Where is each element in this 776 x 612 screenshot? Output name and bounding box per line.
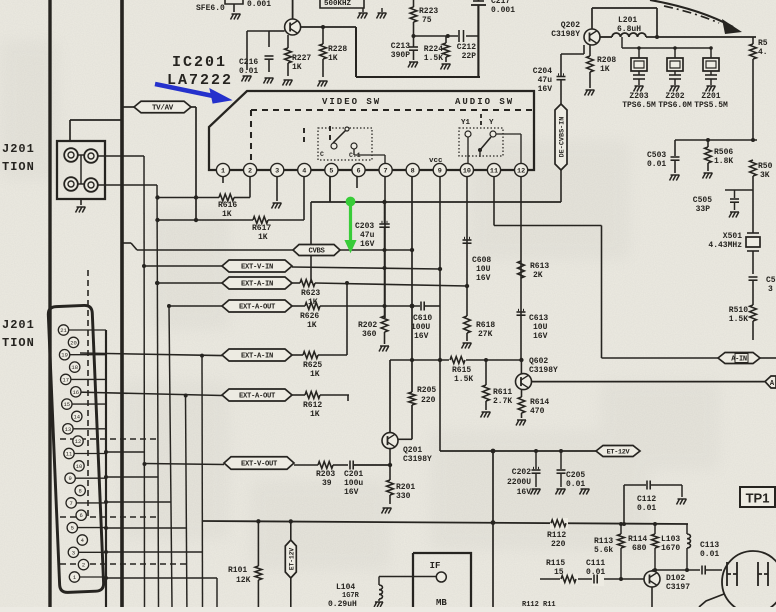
svg-text:0.001: 0.001	[491, 6, 515, 15]
resistor R508 right edge	[752, 37, 754, 44]
wire: y=570 net	[652, 569, 700, 571]
svg-text:R224: R224	[424, 45, 443, 54]
svg-text:R115: R115	[546, 559, 565, 568]
svg-text:C212: C212	[457, 43, 476, 52]
resistor R509 3K	[750, 160, 757, 176]
wire: Q201 base up	[389, 360, 391, 433]
pin 10	[460, 163, 473, 176]
crystal X501	[752, 176, 754, 233]
wire: ET-12V feed y=451	[440, 450, 596, 452]
svg-text:Y: Y	[489, 119, 494, 127]
svg-text:IF: IF	[430, 561, 441, 571]
J201 pin 6	[76, 510, 86, 520]
svg-text:EXT-A-IN: EXT-A-IN	[241, 281, 273, 289]
pin 3	[271, 163, 284, 176]
ground under C503	[671, 174, 680, 176]
svg-text:13: 13	[65, 426, 72, 433]
svg-text:21: 21	[60, 327, 67, 334]
wire: pin3 drop to ground	[276, 177, 278, 201]
svg-text:12K: 12K	[236, 576, 251, 585]
svg-text:390P: 390P	[391, 51, 410, 60]
capacitor series on y=36	[458, 30, 466, 42]
resistor R617	[253, 217, 268, 224]
resistor R613	[518, 261, 525, 278]
transistor D102	[644, 571, 660, 587]
svg-text:R616: R616	[218, 201, 237, 210]
svg-text:C204: C204	[533, 67, 552, 76]
svg-text:R506: R506	[714, 148, 733, 157]
switch S1 dotted box	[318, 128, 372, 160]
ground under R202	[380, 345, 389, 347]
transistor Q202	[584, 29, 600, 45]
component box above SFE6.0	[225, 0, 243, 4]
switch S1 contacts	[331, 143, 337, 149]
wire: bus y=37 continue	[646, 36, 756, 38]
resistor R626	[292, 305, 305, 307]
ground under RCA block	[77, 206, 86, 208]
resistor R223	[413, 0, 415, 7]
wire: Q205 base left	[269, 30, 285, 32]
resistor R506	[707, 140, 709, 147]
svg-text:VIDEO SW: VIDEO SW	[322, 97, 381, 107]
capacitor C610	[420, 302, 422, 311]
J201 pin 15	[62, 399, 72, 409]
resistor R205	[411, 360, 413, 392]
svg-text:18: 18	[71, 364, 78, 371]
svg-text:10U: 10U	[476, 265, 491, 274]
wire: pin11 drop and route to A-IN	[493, 177, 495, 226]
net label A-IN pill	[718, 353, 760, 364]
RCA jack at 91,185	[84, 178, 98, 192]
svg-text:R615: R615	[452, 366, 471, 375]
wire: RCA ground stub	[80, 199, 82, 205]
ground third	[581, 488, 590, 490]
ground under R208	[586, 89, 595, 91]
svg-text:C: C	[320, 151, 324, 158]
svg-text:4.43MHz: 4.43MHz	[708, 241, 742, 250]
svg-text:100U: 100U	[411, 323, 430, 332]
wire: R617 net y=220	[158, 219, 254, 221]
wire: CVBS/DE net y=202	[330, 201, 561, 203]
wire: into IF module	[379, 576, 437, 578]
svg-text:C112: C112	[637, 495, 656, 504]
capacitor C205	[560, 451, 562, 469]
svg-text:C503: C503	[647, 151, 666, 160]
ground under R224	[442, 63, 451, 65]
J201 pin 11	[64, 448, 74, 458]
net label EXT-A-OUT pill	[169, 305, 222, 307]
wire: vertical x186	[186, 396, 187, 608]
capacitor C204	[557, 76, 566, 78]
wire: bus y=140	[675, 139, 757, 141]
ground under R614	[517, 419, 526, 421]
wire: pin10 drop	[466, 177, 468, 316]
svg-text:CVBS: CVBS	[308, 248, 325, 256]
capacitor C111	[592, 572, 604, 586]
svg-text:L201: L201	[618, 16, 637, 25]
svg-text:Q602: Q602	[529, 357, 548, 366]
IC U201 body outline	[209, 91, 534, 170]
svg-text:1K: 1K	[292, 63, 302, 72]
svg-text:R617: R617	[252, 224, 271, 233]
svg-text:Y1: Y1	[461, 119, 471, 127]
net label EXT-A-IN pill	[157, 282, 222, 284]
capacitor C613	[517, 311, 526, 313]
svg-text:16V: 16V	[517, 488, 532, 497]
wire: C505 tap	[725, 189, 753, 191]
svg-text:47u: 47u	[538, 76, 553, 85]
svg-text:C505: C505	[693, 196, 712, 205]
svg-text:EXT-V-IN: EXT-V-IN	[241, 264, 273, 272]
net label EXT-A-IN 2 pill	[80, 353, 222, 356]
svg-text:TP1: TP1	[746, 491, 770, 506]
svg-text:15: 15	[63, 401, 70, 408]
svg-text:R50: R50	[758, 162, 773, 171]
wire: Q201 emitter node	[389, 449, 391, 480]
resistor R623	[292, 282, 300, 284]
svg-text:3: 3	[275, 167, 279, 175]
capacitor C201	[349, 461, 351, 470]
resistor R614	[521, 390, 523, 397]
svg-text:TV/AV: TV/AV	[152, 105, 174, 113]
ground under C505	[730, 211, 739, 213]
svg-text:R613: R613	[530, 262, 549, 271]
svg-text:R201: R201	[396, 483, 415, 492]
svg-text:C608: C608	[472, 256, 491, 265]
J201 pin 2	[78, 559, 88, 569]
svg-text:2: 2	[82, 562, 85, 569]
svg-text:C613: C613	[529, 314, 548, 323]
svg-text:0.01: 0.01	[637, 504, 656, 513]
svg-text:7: 7	[384, 167, 388, 175]
svg-text:R208: R208	[597, 56, 616, 65]
svg-text:Z202: Z202	[665, 92, 684, 101]
svg-text:10: 10	[463, 167, 471, 175]
svg-text:R223: R223	[419, 7, 438, 16]
svg-text:X501: X501	[723, 232, 742, 241]
tuner shield arc arrowhead	[722, 19, 742, 34]
ground under C216 left	[243, 75, 252, 77]
svg-text:9: 9	[68, 475, 71, 482]
net label ET-12V vertical pill	[285, 540, 296, 578]
svg-text:5: 5	[329, 167, 333, 175]
svg-text:0.01: 0.01	[586, 568, 605, 577]
switch S2 dotted box audio	[459, 128, 503, 156]
wire: pin9 drop	[439, 177, 441, 451]
J201 pin 17	[60, 374, 70, 384]
wire: pin8 drop	[411, 177, 413, 360]
wire: DE-CVBS-IN bottom to y202	[560, 170, 562, 202]
ground under pin3	[273, 202, 282, 204]
svg-text:470: 470	[530, 407, 545, 416]
svg-text:AUDIO SW: AUDIO SW	[455, 97, 514, 107]
svg-text:17: 17	[62, 376, 69, 383]
wire: vertical x158	[157, 185, 159, 607]
ground under C202	[532, 488, 541, 490]
ceramic filter Z202	[673, 46, 677, 50]
svg-text:6.8uH: 6.8uH	[617, 25, 641, 34]
pin 4	[298, 163, 311, 176]
capacitor C217 on thick vertical	[477, 5, 479, 77]
svg-text:1670: 1670	[661, 544, 680, 553]
svg-text:2200U: 2200U	[507, 478, 531, 487]
capacitor C505	[730, 198, 739, 200]
svg-text:10U: 10U	[533, 323, 548, 332]
svg-text:8: 8	[411, 167, 415, 175]
svg-text:C201: C201	[344, 470, 363, 479]
svg-text:12: 12	[75, 438, 82, 445]
net label DE-CVBS-IN vertical pill	[555, 104, 567, 170]
svg-text:L103: L103	[661, 535, 680, 544]
svg-text:EXT-A-IN: EXT-A-IN	[241, 353, 273, 361]
svg-text:C213: C213	[391, 42, 410, 51]
resistor R201	[387, 480, 394, 495]
svg-text:75: 75	[422, 16, 432, 25]
pin 1	[216, 163, 229, 176]
J201 pin 9	[65, 473, 75, 483]
svg-text:1G7R: 1G7R	[342, 592, 360, 600]
tuner can circle	[722, 551, 776, 612]
ground under R227	[284, 79, 293, 81]
svg-text:1K: 1K	[310, 410, 320, 419]
svg-text:R228: R228	[328, 45, 347, 54]
svg-text:14: 14	[73, 413, 80, 420]
svg-text:EXT-A-OUT: EXT-A-OUT	[239, 393, 276, 401]
svg-text:27K: 27K	[478, 330, 493, 339]
svg-text:2.7K: 2.7K	[493, 397, 512, 406]
svg-text:R612: R612	[303, 401, 322, 410]
svg-text:0.01: 0.01	[700, 550, 719, 559]
svg-text:ET-12V: ET-12V	[607, 449, 631, 457]
RCA jack at 71,155	[64, 148, 78, 162]
wire: CVBS jog from main bus	[122, 242, 131, 244]
svg-text:2: 2	[248, 167, 252, 175]
wire: Z filter bus y=48	[622, 47, 711, 49]
svg-text:DE-CVBS-IN: DE-CVBS-IN	[559, 117, 567, 158]
svg-text:EXT-A-OUT: EXT-A-OUT	[239, 304, 276, 312]
svg-text:TPS5.5M: TPS5.5M	[694, 101, 728, 110]
wire: scart pin stubs	[69, 329, 107, 331]
svg-text:C113: C113	[700, 541, 719, 550]
svg-text:R623: R623	[301, 289, 320, 298]
svg-text:R203: R203	[316, 470, 335, 479]
svg-text:1K: 1K	[600, 65, 610, 74]
ground under Z203	[635, 85, 644, 87]
svg-text:R112: R112	[547, 531, 566, 540]
svg-text:39: 39	[322, 479, 332, 488]
wire: R616 net y=197.5	[158, 197, 220, 199]
connector J201 scart body	[48, 305, 104, 593]
svg-text:47u: 47u	[360, 231, 375, 240]
svg-text:C205: C205	[566, 471, 585, 480]
svg-text:3K: 3K	[760, 171, 770, 180]
svg-text:0.01: 0.01	[647, 160, 666, 169]
capacitor C608	[463, 239, 472, 241]
tuner trimmer symbols	[727, 562, 737, 586]
resistor R224	[445, 36, 447, 43]
connector RCA block J-video	[57, 141, 105, 199]
wire: A-IN out right	[760, 357, 776, 359]
ground under R201	[383, 507, 392, 509]
svg-text:TION: TION	[2, 160, 35, 174]
capacitor C5xx	[749, 276, 758, 278]
svg-text:0.01: 0.01	[239, 67, 258, 76]
resistor R113	[620, 524, 622, 534]
svg-text:R205: R205	[417, 386, 436, 395]
svg-text:1K: 1K	[307, 321, 317, 330]
wire: Q205 collector up	[292, 0, 294, 19]
svg-text:TPS6.0M: TPS6.0M	[658, 101, 692, 110]
svg-text:R614: R614	[530, 398, 549, 407]
svg-text:R5: R5	[758, 39, 768, 48]
svg-text:6: 6	[80, 512, 83, 519]
wire: staircase to verticals	[106, 451, 144, 453]
wire: switch S2 wiring	[479, 150, 481, 157]
svg-text:1.5K: 1.5K	[454, 375, 473, 384]
svg-text:16V: 16V	[360, 240, 375, 249]
wire: D102 emitter down	[651, 587, 653, 607]
svg-text:L104: L104	[336, 583, 355, 592]
ground under R618	[463, 342, 472, 344]
blue annotation arrow	[155, 84, 231, 103]
net label EXT-V-IN pill	[144, 265, 222, 267]
RCA jack at 91,156	[84, 149, 98, 163]
pin 6	[352, 163, 365, 176]
inductor L201	[612, 33, 646, 37]
J201 pin 19	[59, 350, 69, 360]
wire: Q201 collector to R205	[398, 438, 413, 440]
wire: C112 to ground	[681, 485, 683, 497]
svg-text:R202: R202	[358, 321, 377, 330]
svg-text:R611: R611	[493, 388, 512, 397]
dashed stub above audio switch	[480, 114, 482, 126]
switch S2 contacts	[465, 131, 471, 137]
ground under L104	[375, 601, 383, 603]
ground under Z202	[671, 85, 680, 87]
resistor R510	[750, 305, 757, 321]
wire: pin6 stub	[356, 177, 358, 188]
ground below SFE6.0 box	[232, 13, 241, 15]
wire: DE-CVBS-IN up through C204	[560, 80, 562, 104]
svg-text:R618: R618	[476, 321, 495, 330]
pin 7	[379, 163, 392, 176]
svg-text:J201: J201	[2, 318, 35, 332]
svg-text:16: 16	[72, 389, 79, 396]
wire: CVBS pill to pin8 line	[340, 249, 412, 251]
svg-text:IC201: IC201	[172, 54, 227, 71]
pin 12	[515, 163, 528, 176]
wire: vertical x144	[143, 156, 146, 607]
svg-text:33P: 33P	[696, 205, 711, 214]
capacitor C503	[674, 140, 676, 156]
wire: RCA video out to x144	[98, 155, 144, 157]
resistor R101	[257, 521, 259, 566]
net label ET-12V pill	[596, 446, 640, 457]
svg-text:Q202: Q202	[561, 21, 580, 30]
svg-text:C202: C202	[512, 468, 531, 477]
wire: pin1 stub	[222, 177, 224, 183]
pin 11	[487, 163, 500, 176]
svg-text:0.001: 0.001	[247, 0, 271, 9]
net label TV/AV pill	[122, 106, 134, 108]
dashed stub above pin5	[329, 126, 331, 140]
ceramic filter Z203	[637, 46, 641, 50]
svg-text:1: 1	[221, 167, 225, 175]
green annotation marker	[345, 197, 356, 252]
svg-text:1K: 1K	[328, 54, 338, 63]
svg-text:330: 330	[396, 492, 411, 501]
svg-text:19: 19	[61, 352, 68, 359]
label TP1 boxed	[740, 487, 775, 507]
svg-text:3: 3	[768, 285, 773, 294]
svg-text:4.: 4.	[758, 48, 768, 57]
pin 5	[325, 163, 338, 176]
wire: dashed horizontal y516	[60, 516, 158, 518]
svg-text:220: 220	[551, 540, 566, 549]
J201 pin 8	[75, 485, 85, 495]
svg-text:6: 6	[356, 167, 360, 175]
svg-text:1.5K: 1.5K	[424, 54, 443, 63]
svg-text:R101: R101	[228, 566, 247, 575]
svg-text:J201: J201	[2, 142, 35, 156]
wire: dashed horizontal y564	[60, 563, 187, 565]
wire: vertical x493 lower	[492, 451, 494, 607]
J201 pin 14	[72, 411, 82, 421]
svg-text:D102: D102	[666, 574, 685, 583]
svg-text:TPS6.5M: TPS6.5M	[622, 101, 656, 110]
resistor R611	[485, 360, 487, 385]
resistor R227	[287, 35, 289, 48]
wire: thick L from Q205 emitter down and right	[355, 27, 357, 77]
RCA jack at 71,184	[64, 177, 78, 191]
svg-text:360: 360	[362, 330, 377, 339]
svg-text:Z203: Z203	[629, 92, 648, 101]
wire: pin2 drop	[249, 177, 251, 198]
J201 pin 5	[67, 522, 77, 532]
J201 pin 7	[66, 498, 76, 508]
svg-text:1.8K: 1.8K	[714, 157, 733, 166]
wire: EXT-V-IN to pin9 line	[292, 267, 440, 269]
ground under R506	[704, 172, 713, 174]
wire: y=36 node	[414, 35, 479, 37]
wire: ET-12V pill drop	[290, 521, 292, 540]
wire: x347 vertical link	[346, 283, 348, 355]
svg-text:C610: C610	[413, 314, 432, 323]
dashed box video sw	[251, 109, 533, 111]
svg-text:C3198Y: C3198Y	[403, 455, 432, 464]
svg-text:12: 12	[517, 167, 525, 175]
svg-text:15: 15	[554, 568, 564, 577]
wire: Q602 emitter out to right pill	[532, 381, 766, 383]
wire: Q202 emitter bus y=37	[600, 36, 612, 38]
svg-text:5: 5	[71, 525, 74, 532]
net label A pill partial right edge	[765, 376, 776, 388]
svg-text:Q201: Q201	[403, 446, 422, 455]
wire: R612 end hook	[347, 396, 349, 402]
wire: RCA audio out to x157	[98, 184, 157, 186]
svg-text:R625: R625	[303, 361, 322, 370]
svg-text:11: 11	[490, 167, 498, 175]
svg-text:220: 220	[421, 396, 436, 405]
wire: Q202 collector top frame	[591, 8, 593, 29]
svg-text:0.01: 0.01	[566, 480, 585, 489]
pin 2	[244, 163, 257, 176]
ground pair top	[362, 8, 364, 12]
wire: C610 link y=306	[385, 305, 421, 307]
wire: pin4 drop	[303, 177, 305, 220]
ground under C205	[557, 488, 566, 490]
transistor Q602	[516, 374, 532, 390]
